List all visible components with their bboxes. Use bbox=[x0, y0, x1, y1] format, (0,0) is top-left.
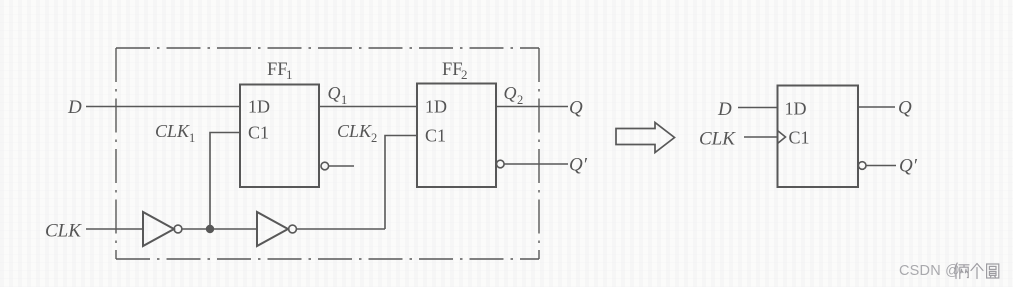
svg-text:2: 2 bbox=[517, 93, 523, 107]
svg-text:1D: 1D bbox=[425, 97, 447, 117]
svg-text:CSDN @: CSDN @ bbox=[899, 263, 960, 279]
svg-text:FF: FF bbox=[267, 60, 288, 80]
svg-text:CLK: CLK bbox=[45, 221, 82, 242]
svg-text:1D: 1D bbox=[785, 99, 807, 119]
svg-text:Q: Q bbox=[898, 98, 912, 119]
svg-text:Q′: Q′ bbox=[899, 156, 918, 177]
svg-text:2: 2 bbox=[371, 131, 377, 145]
svg-text:CLK: CLK bbox=[155, 121, 190, 141]
svg-text:1: 1 bbox=[341, 93, 347, 107]
svg-text:FF: FF bbox=[442, 60, 463, 80]
svg-text:C1: C1 bbox=[789, 128, 810, 148]
svg-text:1: 1 bbox=[189, 131, 195, 145]
svg-text:CLK: CLK bbox=[699, 129, 736, 150]
svg-text:1D: 1D bbox=[248, 97, 270, 117]
svg-text:D: D bbox=[717, 99, 732, 120]
svg-text:CLK: CLK bbox=[337, 121, 372, 141]
svg-text:C1: C1 bbox=[425, 126, 446, 146]
svg-text:Q: Q bbox=[328, 83, 341, 103]
svg-text:Q′: Q′ bbox=[569, 155, 588, 176]
svg-text:Q: Q bbox=[569, 98, 583, 119]
svg-text:Q: Q bbox=[504, 83, 517, 103]
svg-text:D: D bbox=[67, 97, 82, 118]
svg-text:1: 1 bbox=[286, 67, 293, 82]
svg-text:C1: C1 bbox=[248, 123, 269, 143]
svg-text:2: 2 bbox=[461, 67, 468, 82]
